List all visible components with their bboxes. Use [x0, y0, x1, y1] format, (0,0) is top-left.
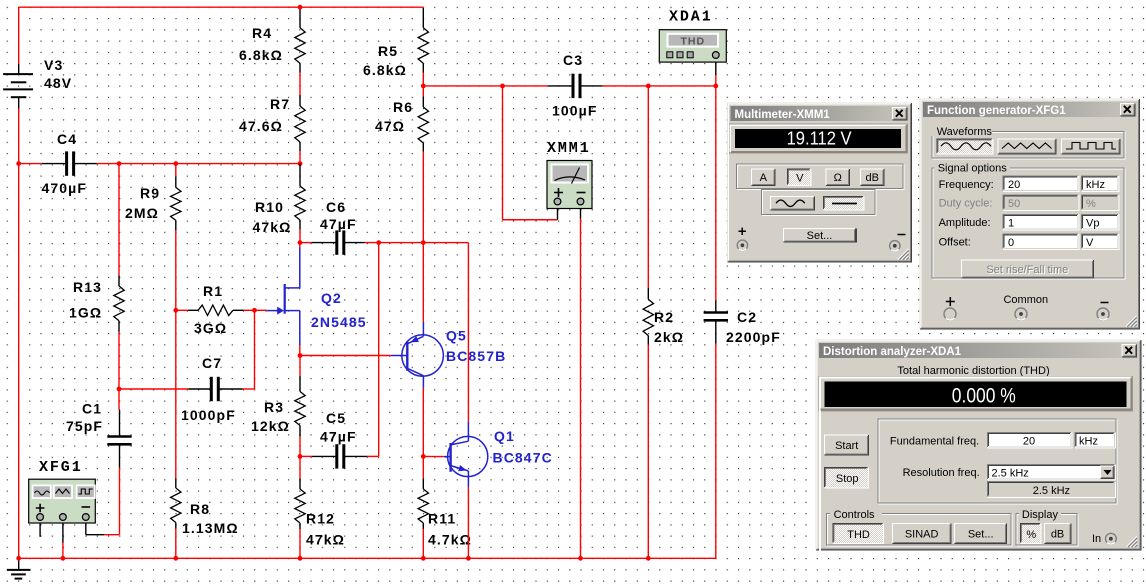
svg-text:C7: C7 — [202, 355, 222, 371]
svg-text:C6: C6 — [326, 199, 346, 215]
wire C1 column — [118, 389, 120, 410]
svg-text:kHz: kHz — [1079, 436, 1098, 448]
wire R13 column — [118, 164, 120, 276]
node dot x300 y242.6 — [298, 240, 303, 245]
wire C5 node to R12 — [299, 456, 301, 478]
wire Q1 collector up to C6 node row — [467, 243, 469, 422]
wire R3 to C5 node — [299, 437, 301, 457]
node dot x423.3 y456.4 — [421, 454, 426, 459]
svg-text:A: A — [760, 172, 768, 184]
resistor R11 — [422, 456, 424, 478]
svg-text:2.5 kHz: 2.5 kHz — [992, 468, 1029, 480]
distortion analyzer window XDA1 — [816, 340, 1141, 588]
svg-text:%: % — [1026, 529, 1036, 541]
svg-text:1: 1 — [1008, 218, 1014, 230]
node dot x254.5 y310.3 — [252, 308, 257, 313]
svg-text:C4: C4 — [57, 131, 77, 147]
svg-text:6.8kΩ: 6.8kΩ — [239, 47, 283, 63]
svg-text:47kΩ: 47kΩ — [306, 532, 345, 548]
svg-text:C2: C2 — [737, 309, 757, 325]
node dot x715.8 y85.9 — [713, 84, 718, 89]
instrument icon XMM1 — [547, 161, 592, 209]
svg-text:R10: R10 — [255, 199, 284, 215]
svg-text:1.13MΩ: 1.13MΩ — [182, 520, 239, 536]
svg-text:R6: R6 — [393, 99, 413, 115]
wire C2 to ground bus corner — [715, 344, 717, 559]
capacitor C3 — [548, 85, 572, 87]
resistor R10 — [295, 164, 305, 230]
svg-text:2200pF: 2200pF — [726, 329, 781, 345]
resistor R1 — [188, 305, 244, 315]
wire top bus V3 to R5 — [19, 6, 424, 8]
node dot x18.7 y163.6 — [16, 161, 21, 166]
wire R6 down to C6 node row — [422, 152, 424, 243]
capacitor C1 — [119, 410, 121, 436]
svg-text:R3: R3 — [264, 399, 284, 415]
transistor Q1 BC847C — [444, 422, 488, 487]
wire C3 node to R6 — [422, 86, 424, 97]
node dot x300 y163.6 — [298, 161, 303, 166]
node dot x300 y355.5 — [298, 353, 303, 358]
svg-text:C1: C1 — [82, 401, 102, 417]
resistor R9 — [171, 177, 181, 231]
svg-text:Display: Display — [1022, 509, 1059, 521]
resistor R4 — [295, 8, 305, 73]
svg-text:Stop: Stop — [836, 473, 859, 485]
svg-text:%: % — [1086, 198, 1096, 210]
svg-text:SINAD: SINAD — [905, 528, 939, 540]
resistor R2 — [643, 288, 653, 344]
node dot x502.5 y85.9 — [500, 84, 505, 89]
wire R1 node down and C7 row — [254, 310, 256, 389]
resistor R6 — [418, 97, 428, 152]
svg-text:Frequency:: Frequency: — [939, 179, 994, 191]
svg-text:Q2: Q2 — [321, 290, 342, 306]
svg-text:R4: R4 — [252, 25, 272, 41]
svg-text:47kΩ: 47kΩ — [253, 219, 292, 235]
svg-text:Total harmonic distortion (THD: Total harmonic distortion (THD) — [897, 365, 1049, 377]
svg-text:470µF: 470µF — [42, 180, 87, 196]
function generator window XFG1 — [920, 99, 1140, 329]
svg-text:47Ω: 47Ω — [375, 118, 405, 134]
wire R1 node down to R8 — [175, 310, 177, 478]
svg-text:Resolution freq.: Resolution freq. — [903, 467, 980, 479]
svg-text:20: 20 — [1023, 436, 1035, 448]
wire battery to lower-left node — [18, 109, 20, 164]
wire XFG1 common to ground bus — [62, 543, 64, 559]
svg-text:100µF: 100µF — [552, 103, 597, 119]
ground symbol — [7, 558, 30, 578]
svg-text:Set rise/Fall time: Set rise/Fall time — [986, 264, 1068, 276]
wire XMM1 plus probe to C3 net — [502, 86, 504, 220]
svg-text:R5: R5 — [378, 43, 398, 59]
svg-text:19.112 V: 19.112 V — [787, 127, 853, 148]
svg-text:R8: R8 — [190, 501, 210, 517]
wire C3 net horizontal y=85.9 — [423, 85, 548, 87]
wire C1 to XFG1 minus — [119, 468, 121, 535]
node dot x300 y7.2 — [298, 5, 303, 10]
svg-text:XMM1: XMM1 — [547, 140, 591, 157]
wire XDA1 to C3 net — [715, 75, 717, 86]
svg-text:2MΩ: 2MΩ — [125, 205, 159, 221]
lead XMM1 minus terminal — [580, 204, 582, 219]
svg-text:R7: R7 — [270, 96, 290, 112]
node dot x175.8 y310.3 — [173, 308, 178, 313]
svg-text:Q5: Q5 — [446, 328, 467, 344]
svg-text:Vp: Vp — [1086, 218, 1099, 230]
wire R1 row — [176, 309, 188, 311]
node dot x119 y163.6 — [117, 161, 122, 166]
node dot x175.8 y163.6 — [173, 161, 178, 166]
wire Q5 emitter to C6 node — [422, 243, 424, 322]
transistor Q2 2N5485 JFET — [267, 248, 300, 346]
svg-text:XDA1: XDA1 — [669, 9, 713, 26]
svg-text:R12: R12 — [306, 511, 335, 527]
wire ground bus y=558.3 — [19, 557, 716, 559]
wire XMM1 minus to ground bus — [580, 219, 582, 559]
svg-text:Amplitude:: Amplitude: — [939, 217, 991, 229]
resistor R8 — [171, 479, 181, 529]
wire R4 to R7 — [299, 73, 301, 96]
svg-text:3GΩ: 3GΩ — [194, 320, 227, 336]
svg-text:BC847C: BC847C — [493, 450, 553, 466]
svg-text:0.000 %: 0.000 % — [952, 383, 1016, 407]
wire R8 to ground bus — [175, 529, 177, 559]
wire C6 node down to C5 right — [378, 243, 380, 457]
node dot x300 y456.4 — [298, 454, 303, 459]
wire R9 to R1 node — [175, 231, 177, 311]
node dot x423.3 y85.9 — [421, 84, 426, 89]
svg-text:THD: THD — [681, 35, 706, 47]
node dot x119 y389 — [117, 387, 122, 392]
lead XDA1 input — [715, 59, 717, 76]
node dot x423.3 y242.6 — [421, 240, 426, 245]
svg-text:THD: THD — [847, 529, 870, 541]
transistor Q5 BC857B — [391, 322, 444, 388]
svg-text:dB: dB — [1051, 528, 1064, 540]
svg-text:Common: Common — [1003, 294, 1048, 306]
svg-text:V: V — [1086, 237, 1094, 249]
battery V3 — [3, 64, 33, 108]
lead XMM1 plus terminal — [557, 204, 559, 220]
wire Q2 drain to node — [299, 243, 301, 248]
svg-text:Fundamental freq.: Fundamental freq. — [890, 435, 979, 447]
svg-text:C5: C5 — [326, 410, 346, 426]
wire left vertical rail down to ground bus — [18, 164, 20, 559]
capacitor C4 — [42, 163, 66, 165]
svg-text:R11: R11 — [428, 511, 456, 527]
svg-text:Q1: Q1 — [494, 428, 515, 444]
svg-text:2N5485: 2N5485 — [311, 314, 367, 330]
svg-text:XFG1: XFG1 — [39, 459, 83, 476]
resistor R12 — [295, 479, 305, 530]
svg-text:Duty cycle:: Duty cycle: — [939, 197, 993, 209]
svg-text:V: V — [796, 173, 804, 185]
ground bus node dots — [16, 556, 21, 561]
svg-text:R2: R2 — [654, 309, 674, 325]
resistor R3 — [295, 376, 305, 437]
wire R7 to node — [299, 151, 301, 164]
svg-text:Ω: Ω — [834, 172, 842, 184]
wire Q5 collector to R11 node — [422, 388, 424, 457]
wire R12 to ground bus — [299, 529, 301, 558]
capacitor C2 — [715, 301, 717, 312]
wire R9 column — [175, 164, 177, 177]
svg-text:Distortion analyzer-XDA1: Distortion analyzer-XDA1 — [823, 346, 962, 358]
wire Q1 base net — [423, 455, 444, 457]
svg-text:48V: 48V — [44, 75, 72, 91]
wire Q2 source node to R3 — [299, 356, 301, 377]
svg-text:1GΩ: 1GΩ — [69, 305, 102, 321]
svg-text:20: 20 — [1008, 179, 1020, 191]
svg-text:R13: R13 — [73, 279, 102, 295]
svg-text:dB: dB — [866, 172, 879, 184]
svg-text:Controls: Controls — [834, 509, 875, 521]
svg-text:Set...: Set... — [807, 230, 833, 242]
svg-text:2.5 kHz: 2.5 kHz — [1033, 485, 1070, 497]
resistor R7 — [295, 95, 305, 151]
svg-text:Function generator-XFG1: Function generator-XFG1 — [927, 105, 1066, 117]
node dot x378.7 y242.6 — [376, 240, 381, 245]
svg-text:50: 50 — [1008, 198, 1020, 210]
instrument icon XDA1 — [659, 30, 726, 62]
wire R11 to ground bus — [422, 529, 424, 558]
wire R5 to C3 node — [422, 73, 424, 86]
svg-text:R9: R9 — [140, 185, 160, 201]
svg-text:Start: Start — [835, 440, 858, 452]
svg-text:47.6Ω: 47.6Ω — [239, 118, 283, 134]
wire C5 left to node — [300, 455, 312, 457]
resistor R5 — [418, 8, 428, 73]
wire C3 net down to C2 — [715, 86, 717, 301]
svg-text:47µF: 47µF — [320, 216, 357, 232]
wire Q5 base net — [300, 355, 391, 357]
svg-text:R1: R1 — [203, 283, 223, 299]
svg-text:75pF: 75pF — [66, 418, 103, 434]
wire C3 net down to R2 — [647, 86, 649, 288]
svg-text:In: In — [1092, 533, 1101, 545]
capacitor C6 — [312, 242, 336, 244]
capacitor C7 — [189, 388, 211, 390]
svg-text:Waveforms: Waveforms — [937, 126, 993, 138]
svg-text:C3: C3 — [563, 52, 583, 68]
svg-text:kHz: kHz — [1086, 179, 1105, 191]
multimeter window XMM1 — [728, 103, 912, 262]
wire gate net from R1 node — [255, 309, 267, 311]
node dot x648.3 y85.9 — [646, 84, 651, 89]
svg-text:47µF: 47µF — [320, 429, 357, 445]
svg-text:6.8kΩ: 6.8kΩ — [363, 62, 407, 78]
svg-text:12kΩ: 12kΩ — [251, 418, 290, 434]
instrument icon XFG1 — [29, 479, 96, 523]
svg-text:4.7kΩ: 4.7kΩ — [428, 532, 472, 548]
resistor R13 — [114, 275, 124, 332]
svg-text:Set...: Set... — [968, 528, 994, 540]
wire R2 to ground bus — [647, 345, 649, 559]
wire R10 to C6 node — [299, 230, 301, 243]
capacitor C5 — [312, 455, 336, 457]
svg-text:Offset:: Offset: — [939, 237, 971, 249]
svg-text:2kΩ: 2kΩ — [654, 329, 684, 345]
wire Q2 source to node — [299, 345, 301, 356]
svg-text:Multimeter-XMM1: Multimeter-XMM1 — [735, 109, 831, 121]
lead XFG1 minus — [85, 520, 87, 535]
svg-text:V3: V3 — [44, 57, 63, 73]
svg-text:Signal options: Signal options — [938, 163, 1008, 175]
lead XFG1 plus stub — [39, 520, 41, 537]
wire C6 node row y=242.6 — [300, 242, 312, 244]
wire Q1 emitter to ground bus — [467, 487, 469, 558]
wire horizontal node row y=163.6 — [19, 163, 42, 165]
svg-text:0: 0 — [1008, 237, 1014, 249]
svg-text:BC857B: BC857B — [446, 348, 506, 364]
wire R13 to C7 node — [118, 332, 120, 389]
lead XFG1 common — [62, 520, 64, 542]
svg-text:1000pF: 1000pF — [181, 407, 236, 423]
